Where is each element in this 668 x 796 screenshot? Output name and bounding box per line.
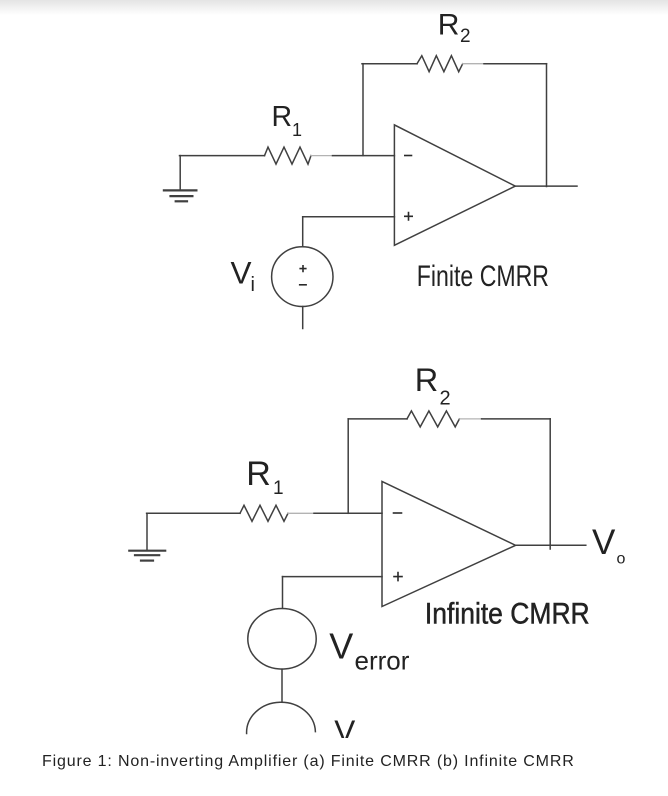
wire: non-inverting input wire	[283, 576, 383, 578]
svg-text:i: i	[251, 274, 255, 296]
source Verror circle	[248, 609, 316, 670]
wire: feedback top-left segment to R2	[348, 418, 407, 420]
svg-text:2: 2	[460, 26, 471, 47]
wire: ground stem vertical	[179, 156, 181, 190]
plus/minus inside source Vi	[299, 265, 307, 285]
wire: feedback left vertical	[362, 64, 364, 156]
wire: ground to R1	[147, 512, 240, 514]
wire: inverting input wire to op-amp	[333, 155, 395, 157]
resistor R1 (top circuit) zigzag	[265, 147, 312, 164]
svg-text:R: R	[272, 101, 293, 133]
wire: vertical from + input down to Verror source	[282, 577, 284, 609]
wire: ground stem vertical	[146, 513, 148, 550]
source V circle (clipped at figure bottom)	[247, 702, 316, 733]
svg-text:2: 2	[440, 388, 451, 410]
wire: ground to R1	[180, 155, 265, 157]
svg-text:R: R	[246, 455, 271, 493]
op-amp U1 (top circuit) triangle	[394, 125, 515, 245]
svg-text:V: V	[592, 523, 616, 562]
svg-text:o: o	[617, 550, 626, 567]
wire: below Vi source	[302, 307, 304, 329]
resistor R1 (bottom circuit) zigzag	[240, 505, 288, 521]
wire: faint segment right of R2	[459, 418, 481, 420]
wire: feedback right vertical (slight overshoot)	[549, 419, 551, 549]
ground (bottom circuit)	[129, 551, 165, 561]
wire: output of op-amp	[515, 185, 577, 187]
svg-text:R: R	[415, 362, 438, 398]
svg-text:error: error	[355, 646, 410, 676]
svg-text:Finite CMRR: Finite CMRR	[417, 260, 549, 293]
wire: non-inverting input wire	[303, 216, 395, 218]
wire: faint segment right of R1	[288, 512, 314, 514]
wire: faint segment right of R2	[463, 63, 484, 65]
svg-text:V: V	[329, 626, 353, 667]
plus sign inside op-amp U1	[404, 156, 413, 221]
svg-text:V: V	[231, 254, 252, 290]
svg-text:1: 1	[273, 478, 284, 499]
minus and plus inside op-amp U2	[393, 513, 403, 581]
svg-text:R: R	[438, 8, 460, 41]
source Vi circle	[272, 247, 333, 307]
page top scan gradient	[0, 0, 668, 15]
wire: output of op-amp	[516, 544, 586, 546]
op-amp U2 (bottom circuit) triangle	[382, 482, 516, 607]
wire: between Verror and V source	[281, 669, 283, 701]
svg-text:V: V	[334, 713, 355, 749]
svg-text:Figure 1: Non-inverting Amplif: Figure 1: Non-inverting Amplifier (a) Fi…	[42, 753, 574, 770]
wire: feedback top-right segment	[482, 418, 551, 420]
wire: feedback left vertical	[347, 419, 349, 513]
wire: faint segment right of R1	[311, 155, 333, 157]
wire: feedback top-right segment	[484, 63, 547, 65]
wire: vertical from + input down to Vi source	[302, 217, 304, 247]
label V (second source, clipped by figure edge)	[334, 713, 355, 749]
svg-text:Infinite CMRR: Infinite CMRR	[425, 597, 590, 630]
svg-text:1: 1	[292, 120, 302, 140]
wire: feedback right vertical	[546, 64, 548, 187]
wire: feedback top-left segment to R2	[362, 63, 417, 65]
ground (top circuit)	[164, 190, 197, 201]
resistor R2 (bottom circuit) zigzag	[407, 411, 459, 427]
wire: inverting input wire to op-amp	[314, 512, 382, 514]
resistor R2 (top circuit) zigzag	[417, 56, 463, 72]
